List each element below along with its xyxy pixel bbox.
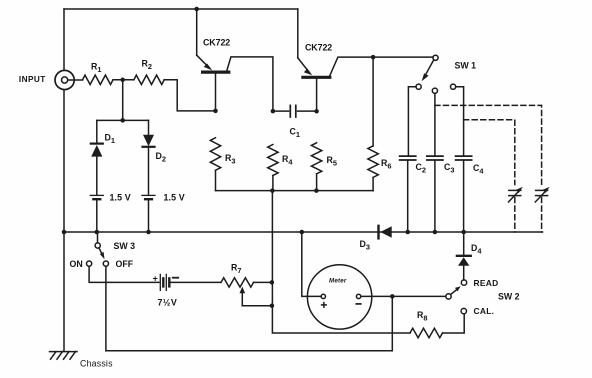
node Q2 collector / R6 [371, 55, 376, 60]
battery 7.5V [160, 274, 221, 290]
wire bias vertical from R4 bottom down to R8 line [272, 191, 410, 333]
node rail junction x=434.9 [433, 230, 438, 235]
wire OFF contact down to bottom rail [105, 266, 107, 351]
diode D1 (cathode bar top, triangle pointing up) [91, 120, 103, 194]
wire top supply rail [64, 8, 298, 10]
connector INPUT jack [55, 70, 74, 89]
svg-text:1.5 V: 1.5 V [164, 193, 185, 203]
svg-text:READ: READ [474, 278, 499, 288]
wire SW1 contact A to C2 [408, 87, 416, 155]
trimmer capacitor 1 (variable) [509, 187, 523, 232]
resistor R7 (rheostat) [221, 278, 254, 287]
resistor R2 [134, 75, 164, 84]
svg-text:SW 2: SW 2 [498, 292, 520, 302]
svg-text:OFF: OFF [116, 259, 134, 269]
switch SW3 [87, 232, 109, 266]
label meter minus [356, 303, 361, 305]
node R1/R2 junction [120, 78, 125, 83]
battery cell 1.5V (left) [90, 195, 103, 232]
svg-text:CK722: CK722 [305, 43, 332, 53]
wire bottom rail from OFF to meter junction [106, 350, 392, 352]
switch SW1 [416, 55, 456, 93]
capacitor C1 [273, 105, 317, 117]
svg-text:SW 1: SW 1 [455, 61, 477, 71]
node rail junction x=64 [62, 230, 67, 235]
node rail junction x=96.8 [95, 230, 100, 235]
capacitor C4 [456, 156, 472, 232]
label meter plus [322, 303, 327, 308]
node R7 right junction [270, 280, 275, 285]
wire SW1 contact C to C4 [456, 87, 464, 155]
svg-text:7½V: 7½V [158, 298, 178, 308]
diode D2 (triangle pointing down, cathode bar bottom) [143, 120, 155, 194]
node R4 bottom [270, 188, 275, 193]
diode D3 (pointing left, cathode bar left) [379, 226, 392, 239]
svg-text:INPUT: INPUT [19, 75, 46, 84]
wire left vertical from top rail to INPUT jack [63, 9, 65, 70]
switch SW2 [446, 280, 467, 314]
wire meter feed from rail [302, 232, 321, 296]
node Q1 base / R2 / R3 [213, 109, 218, 114]
battery cell 1.5V (right) [142, 195, 155, 232]
wire SW1 contact B to C3 [434, 93, 436, 155]
trimmer capacitor 2 (variable) [535, 187, 549, 232]
node wiper junction [270, 303, 275, 308]
wire diode header D1-D2 [97, 119, 149, 121]
rail mid horizontal (battery/diode return) [64, 231, 543, 233]
diode D4 (cathode bar top, triangle pointing up) [457, 232, 471, 280]
wire R8 to CAL contact [443, 314, 465, 333]
wire from INPUT jack to R1 [68, 79, 83, 81]
node rail junction x=407.7 [405, 230, 410, 235]
wire R2 to Q1 base [164, 80, 215, 111]
node R5 bottom [314, 188, 319, 193]
svg-text:Chassis: Chassis [80, 359, 113, 369]
meter M1 [307, 265, 371, 329]
svg-text:SW 3: SW 3 [114, 241, 136, 251]
node rail junction x=301.8 [300, 230, 305, 235]
label battery minus [173, 277, 178, 279]
wire left vertical INPUT jack down to bottom rail and chassis [63, 90, 65, 352]
svg-text:+: + [153, 273, 158, 283]
node header junction [120, 118, 125, 123]
svg-text:ON: ON [70, 259, 83, 269]
R7 wiper arrow [240, 287, 272, 306]
node top-rail / Q1 emitter junction [194, 7, 199, 12]
resistor R1 [83, 75, 114, 84]
resistor R3 [210, 138, 220, 191]
svg-text:1.5 V: 1.5 V [110, 193, 131, 203]
resistor R5 [311, 143, 321, 191]
node C4/D4 rail junction [461, 230, 466, 235]
wire junction drop to diode header [122, 80, 124, 121]
wire dashed C3 to trimmer 2 [435, 105, 542, 184]
transistor Q2 CK722 [298, 9, 433, 111]
wire resistor-bottom bus [216, 190, 374, 192]
wire meter minus to SW2 pole [361, 295, 446, 297]
wire dashed C4 to trimmer 1 [464, 120, 515, 185]
wire ON contact to battery 7.5V [89, 266, 159, 282]
node C1 / Q2 base / R5 [314, 109, 319, 114]
wire R1 to R2 with junction [113, 79, 134, 81]
wire junction down to bottom rail [391, 296, 393, 350]
resistor R6 [368, 57, 378, 191]
svg-text:Meter: Meter [329, 278, 347, 285]
wire R7 to bias vertical [254, 281, 272, 283]
capacitor C3 [427, 156, 443, 232]
resistor R8 [410, 328, 443, 337]
svg-text:CK722: CK722 [203, 38, 230, 48]
svg-text:CAL.: CAL. [474, 306, 495, 316]
node Q1 collector / C1 / R4 [271, 109, 276, 114]
node meter/SW2 junction [390, 294, 395, 299]
transistor Q1 CK722 [197, 9, 273, 111]
node rail junction x=148.5 [146, 230, 151, 235]
ground chassis symbol [50, 352, 78, 360]
capacitor C2 [400, 156, 416, 232]
resistor R4 [268, 145, 278, 191]
